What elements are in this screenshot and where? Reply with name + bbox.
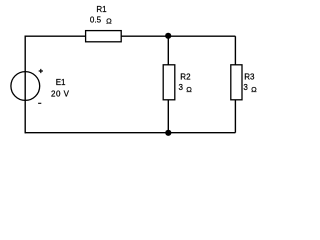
resistor R2 (box) — [163, 65, 175, 100]
wire right: R3 branch vertical — [234, 36, 236, 133]
wire left: E1 branch vertical — [24, 36, 26, 134]
E1 plus sign — [39, 69, 43, 73]
svg-text:Ω: Ω — [251, 85, 257, 94]
svg-text:Ω: Ω — [106, 17, 112, 26]
svg-text:E1: E1 — [56, 78, 66, 87]
source E1 (circle) — [11, 72, 40, 101]
svg-text:3: 3 — [179, 83, 184, 92]
wire top: node between E1+ and R1, R1 to node A, node A to R3 top — [25, 35, 235, 37]
svg-text:3: 3 — [243, 83, 248, 92]
resistor R1 (box) — [86, 31, 122, 42]
E1 minus sign — [38, 102, 41, 104]
resistor R3 (box) — [231, 65, 242, 100]
wire bottom: common bottom net — [25, 132, 235, 134]
svg-text:0.5: 0.5 — [90, 15, 102, 24]
svg-text:R1: R1 — [96, 5, 107, 14]
svg-text:20 V: 20 V — [51, 89, 70, 98]
wire middle: R2 branch vertical from node A to bottom node — [167, 36, 169, 133]
svg-text:R2: R2 — [180, 72, 191, 81]
junction node A (top) — [165, 33, 171, 39]
svg-text:R3: R3 — [244, 72, 255, 81]
svg-text:Ω: Ω — [186, 85, 192, 94]
junction node bottom — [165, 130, 171, 136]
